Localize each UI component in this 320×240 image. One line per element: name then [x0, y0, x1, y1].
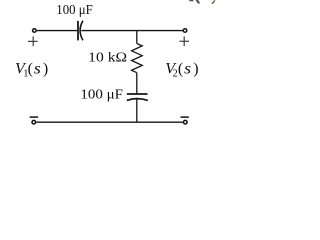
polarity plus top-left	[28, 36, 38, 46]
wire capacitor C2 to bottom rail	[136, 99, 138, 122]
capacitor C1 curved plate	[80, 21, 83, 41]
svg-text:100 μF: 100 μF	[56, 2, 93, 18]
cropped text fragment B (top edge)	[196, 0, 199, 3]
svg-text:s: s	[184, 61, 191, 78]
svg-text:): )	[193, 61, 198, 78]
terminal top-left	[33, 29, 37, 33]
cropped text fragment A (top edge)	[189, 0, 191, 1]
polarity minus bottom-left	[30, 116, 38, 118]
capacitor C1 straight plate	[77, 21, 79, 41]
terminal bottom-right	[183, 120, 187, 124]
resistor R1 zigzag 10 kOhm	[132, 44, 143, 73]
polarity plus top-right	[179, 36, 189, 46]
svg-text:): )	[43, 61, 48, 78]
svg-text:10 kΩ: 10 kΩ	[88, 50, 127, 66]
wire junction drop to resistor	[136, 31, 138, 44]
terminal bottom-left	[32, 120, 36, 124]
wire bottom rail	[36, 121, 183, 123]
node label V2(s) output voltage	[165, 61, 198, 80]
svg-text:(: (	[178, 61, 183, 78]
capacitor C2 curved bottom plate	[127, 99, 148, 101]
capacitor C2 straight top plate	[127, 93, 148, 95]
svg-text:100 μF: 100 μF	[80, 87, 123, 103]
polarity minus bottom-right	[181, 116, 189, 118]
wire resistor to capacitor C2	[136, 73, 138, 94]
svg-text:(: (	[28, 61, 33, 78]
terminal top-right	[183, 29, 187, 33]
node label V1(s) input voltage	[15, 61, 48, 80]
wire top-right segment	[81, 30, 182, 32]
wire top-left segment	[37, 30, 77, 32]
cropped text fragment C (top edge)	[213, 0, 215, 3]
svg-text:s: s	[34, 61, 41, 78]
